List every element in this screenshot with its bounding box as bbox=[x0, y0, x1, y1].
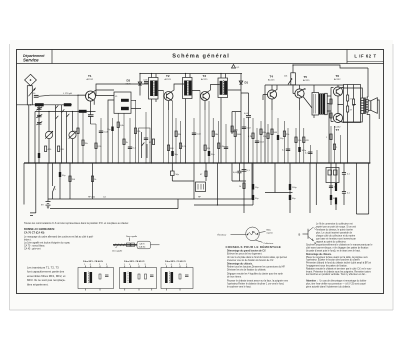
junction dots on ground bus bbox=[28, 162, 370, 163]
wire below-bus mid columns bbox=[244, 163, 331, 213]
IF transformer MF1 bbox=[149, 78, 159, 100]
resistor R8 bbox=[134, 128, 140, 134]
svg-text:Un cas de démontage et remonta: Un cas de démontage et remontage du boît… bbox=[320, 280, 367, 283]
svg-text:33k: 33k bbox=[178, 134, 181, 136]
svg-text:repère: repère bbox=[267, 231, 274, 234]
resistor R3 bbox=[73, 128, 79, 134]
note transistors in filters bbox=[27, 266, 66, 287]
svg-text:Filtre MF3 : FO 4D 21: Filtre MF3 : FO 4D 21 bbox=[165, 260, 187, 263]
svg-text:T3: T3 bbox=[203, 74, 207, 78]
capacitor C34 bbox=[171, 171, 179, 176]
svg-text:T6: T6 bbox=[336, 74, 340, 78]
svg-text:l'embase du dessus, le point s: l'embase du dessus, le point s'avère bbox=[316, 229, 354, 232]
resistor R1 bbox=[45, 146, 52, 152]
svg-text:8,2k: 8,2k bbox=[182, 146, 186, 148]
svg-text:1k: 1k bbox=[126, 142, 128, 144]
svg-text:Dévisser les vis de fixation d: Dévisser les vis de fixation du châssis. bbox=[227, 269, 267, 272]
svg-text:plus. Le circuit imprimé possè: plus. Le circuit imprimé possède de bbox=[316, 232, 353, 235]
wire T5 nets bbox=[293, 85, 305, 110]
capacitor C29 bbox=[329, 186, 338, 189]
svg-text:1ère agraffe: 1ère agraffe bbox=[112, 250, 122, 253]
antenna car-aerial diamond bbox=[25, 74, 37, 85]
wire bias nets bbox=[348, 85, 356, 164]
wire MF2 nets bbox=[186, 74, 201, 164]
trimmer CT2 bbox=[36, 114, 42, 117]
svg-text:CA 70: CA 70 bbox=[139, 243, 144, 246]
resistor R2 bbox=[58, 146, 65, 152]
svg-text:4: 4 bbox=[90, 264, 91, 266]
trimmer CT1 bbox=[36, 107, 42, 110]
svg-text:Retirer tous les boutons,Desse: Retirer tous les boutons,Desserrer les c… bbox=[227, 266, 286, 269]
paper edge shadow bbox=[10, 44, 394, 310]
IF transformer MF3 bbox=[218, 78, 228, 98]
oscillator coil block L5 bbox=[114, 92, 131, 113]
wire bias columns IF section bbox=[169, 101, 236, 163]
header box L IF 62 T bbox=[347, 50, 384, 64]
transistor symbol BCE legend bbox=[299, 226, 317, 245]
svg-text:1: 1 bbox=[84, 264, 85, 266]
svg-text:100μ: 100μ bbox=[292, 187, 297, 189]
wire T1 base net bbox=[78, 94, 86, 96]
conseils right column bbox=[306, 244, 373, 289]
svg-text:T2: T2 bbox=[166, 74, 170, 78]
svg-text:15k: 15k bbox=[85, 143, 88, 145]
capacitor C12 electrolytic bbox=[171, 151, 178, 156]
header box Departement Service bbox=[23, 50, 52, 64]
capacitor C21 electrolytic bbox=[298, 147, 306, 152]
wire antenna coupling bbox=[39, 95, 50, 96]
transformer TR2 secondary bbox=[366, 100, 368, 113]
resistor R9 bbox=[149, 139, 155, 145]
capacitor C20 bbox=[282, 149, 290, 152]
battery B1 9V bbox=[41, 199, 51, 209]
potentiometer P1 volume bbox=[284, 73, 295, 85]
svg-text:repéré par un point de rouge.: repéré par un point de rouge. Si on voit bbox=[316, 226, 356, 229]
svg-text:AC125: AC125 bbox=[165, 78, 172, 81]
resistor R33 bbox=[330, 99, 332, 104]
note collector lead paragraph bbox=[316, 223, 356, 244]
svg-text:1k: 1k bbox=[94, 179, 96, 181]
junction dots RF nets bbox=[30, 64, 339, 112]
diode D1 detector bbox=[239, 74, 248, 91]
wire C33 column bbox=[335, 163, 337, 210]
wire T3 collector to MF3 bbox=[208, 85, 220, 93]
svg-text:Démontage du châssis.: Démontage du châssis. bbox=[227, 263, 253, 266]
svg-text:(CA 45): (CA 45) bbox=[139, 246, 146, 249]
svg-text:D1: D1 bbox=[245, 81, 249, 85]
filter MF3 box bbox=[161, 264, 193, 291]
svg-text:3: 3 bbox=[145, 264, 146, 266]
note bobine body bbox=[24, 236, 93, 251]
resistor R19 bbox=[260, 129, 266, 135]
wire detector output net bbox=[241, 90, 249, 163]
coil L3 coupling winding bbox=[79, 110, 87, 113]
svg-text:4: 4 bbox=[171, 264, 172, 266]
svg-text:50μ: 50μ bbox=[62, 175, 65, 177]
svg-text:Bleu: Bleu bbox=[267, 229, 272, 231]
svg-text:Soulever proportionnellement l: Soulever proportionnellement le châssis … bbox=[306, 244, 373, 247]
filter MF1 box bbox=[78, 264, 114, 291]
resistor R7 bbox=[123, 139, 128, 145]
svg-text:d'exercer une vis de fixation: d'exercer une vis de fixation du bouton … bbox=[227, 259, 274, 262]
capacitor C18 bbox=[255, 141, 265, 144]
capacitor C28 electrolytic bbox=[289, 195, 296, 200]
resistor R27 bbox=[326, 134, 332, 140]
svg-text:10μ: 10μ bbox=[280, 138, 283, 140]
resistor R20 bbox=[263, 133, 269, 139]
transistor T6 bbox=[333, 74, 342, 96]
svg-text:Dégager ensuite les 4 éguilles: Dégager ensuite les 4 éguilles du clavie… bbox=[227, 273, 283, 276]
resistor R31 bbox=[239, 183, 245, 189]
resistor R4 bbox=[82, 140, 88, 146]
coil L2 ferrite LW winding bbox=[64, 103, 72, 106]
svg-text:4: 4 bbox=[129, 264, 130, 266]
transistor T7 bbox=[333, 113, 342, 132]
svg-text:Pousser le châssis tenant asse: Pousser le châssis tenant assez sur la f… bbox=[227, 280, 289, 283]
capacitor C31 bbox=[342, 173, 351, 176]
svg-text:L 170 μH: L 170 μH bbox=[63, 93, 72, 95]
transformer TR2 output primary bbox=[361, 98, 364, 114]
svg-text:AC125: AC125 bbox=[303, 79, 310, 82]
capacitor C13 bbox=[192, 133, 202, 136]
wire tone net bbox=[172, 163, 206, 199]
capacitor C27 electrolytic bbox=[289, 184, 297, 190]
svg-text:1k: 1k bbox=[239, 186, 241, 188]
resistor R14 bbox=[231, 126, 238, 132]
page border frame bbox=[17, 50, 384, 294]
svg-text:AC132: AC132 bbox=[87, 78, 94, 81]
svg-text:l'opérateur. Écarter le bouton: l'opérateur. Écarter le bouton des fourc… bbox=[306, 259, 361, 262]
svg-text:2: 2 bbox=[179, 264, 180, 266]
svg-text:Cd: Cd bbox=[103, 197, 106, 199]
capacitor C33 electrolytic bbox=[335, 183, 337, 205]
IF transformer MF2 bbox=[183, 78, 193, 99]
svg-text:4,7k: 4,7k bbox=[248, 136, 252, 138]
resistor R15 bbox=[212, 131, 218, 137]
wire secondary net bbox=[35, 112, 96, 164]
wire T3 base net bbox=[199, 91, 201, 164]
svg-text:Émetteur: Émetteur bbox=[218, 234, 227, 237]
svg-text:l'opérateur.Retirer le châssis: l'opérateur.Retirer le châssis s'incline… bbox=[227, 283, 285, 286]
conseils left column bbox=[227, 249, 289, 288]
resistor R23 bbox=[347, 106, 353, 112]
coil L1 ferrite MW winding bbox=[35, 103, 44, 106]
capacitor C23 electrolytic bbox=[59, 172, 66, 177]
svg-text:12k: 12k bbox=[263, 136, 266, 138]
svg-text:lettes t.: lettes t. bbox=[24, 239, 32, 242]
transistor T2 bbox=[164, 74, 173, 101]
svg-text:de leur étrens.: de leur étrens. bbox=[227, 276, 242, 279]
svg-text:gène autorité dans l'éclaireme: gène autorité dans l'éclairement du châs… bbox=[306, 285, 351, 288]
svg-text:50μ: 50μ bbox=[176, 174, 179, 176]
wire push-pull nets bbox=[338, 85, 344, 123]
capacitor C25 electrolytic bbox=[252, 184, 259, 190]
switch S2 on-off bbox=[53, 183, 57, 199]
loudspeaker HP bbox=[368, 98, 379, 119]
resistor R6 bbox=[117, 122, 123, 128]
svg-text:100k: 100k bbox=[237, 134, 241, 136]
capacitor C9 electrolytic bbox=[107, 127, 114, 132]
germanium coil drawing bbox=[112, 235, 160, 253]
svg-text:T1: T1 bbox=[88, 74, 92, 78]
svg-text:2: 2 bbox=[138, 264, 139, 266]
jack J2 speaker socket bbox=[196, 182, 206, 199]
transistor T5 bbox=[295, 75, 310, 98]
resistor R34 bbox=[330, 113, 332, 118]
wire top supply rail IF bbox=[140, 73, 242, 75]
resistor R17 bbox=[234, 131, 241, 137]
svg-text:Attention :: Attention : bbox=[306, 280, 318, 283]
svg-text:les fourches en position verti: les fourches en position verticale. Tout… bbox=[306, 273, 367, 276]
svg-text:Filtre MF2 : FB 4D 21: Filtre MF2 : FB 4D 21 bbox=[124, 260, 145, 263]
resistor R5 bbox=[95, 143, 101, 149]
resistor R22 bbox=[347, 95, 353, 101]
svg-text:Rabattre ensuite le châssis et: Rabattre ensuite le châssis et terminer … bbox=[306, 267, 372, 270]
resistor R16 bbox=[218, 143, 224, 149]
resistor R12 bbox=[179, 143, 185, 149]
connector tag lower left bbox=[30, 213, 36, 216]
svg-text:Toutes les commutations K-S on: Toutes les commutations K-S ont été repr… bbox=[24, 222, 129, 225]
capacitor C32 bbox=[342, 192, 351, 195]
wire T1 emitter net bbox=[90, 101, 92, 112]
svg-text:3: 3 bbox=[186, 264, 187, 266]
svg-text:Le marquage du cadre allemand: Le marquage du cadre allemand des couleu… bbox=[24, 236, 93, 239]
resistor R25 bbox=[295, 137, 301, 143]
svg-text:50μ: 50μ bbox=[292, 198, 295, 200]
capacitor C15 bbox=[244, 113, 251, 117]
wire AF supply rail bbox=[265, 85, 344, 163]
wire T4 nets bbox=[263, 85, 277, 110]
wire AVC net bbox=[232, 93, 249, 163]
wire C31 column bbox=[343, 163, 345, 205]
capacitor C35 bbox=[233, 171, 242, 174]
svg-text:le soulever vers le haut.: le soulever vers le haut. bbox=[227, 286, 252, 289]
svg-text:Filtre MF1 : FB 4H N: Filtre MF1 : FB 4H N bbox=[83, 260, 103, 263]
capacitor C4 electrolytic bbox=[38, 153, 40, 158]
header band bottom line bbox=[17, 63, 385, 65]
wire T1 collector to MF1 bbox=[93, 84, 149, 105]
transistor T3 bbox=[201, 74, 210, 101]
resistor R13 bbox=[204, 145, 211, 151]
svg-text:Enlever les yeux de leur logem: Enlever les yeux de leur logement. bbox=[227, 252, 263, 255]
transformer TR1 core and secondary winding bbox=[319, 94, 325, 115]
svg-text:(la patte d'avant puis le fond: (la patte d'avant puis le fond), en le t… bbox=[306, 249, 361, 252]
wire MF3 nets bbox=[221, 74, 241, 164]
transistor case pinout diagram bbox=[218, 227, 274, 245]
svg-text:2: 2 bbox=[99, 264, 100, 266]
svg-text:chaque côté du collecteur et d: chaque côté du collecteur et du repère bbox=[316, 235, 356, 238]
wire supply rail lower bbox=[48, 163, 252, 209]
wire C23 tail bbox=[59, 183, 61, 199]
variable capacitor CV2 oscillator gang bbox=[69, 131, 77, 138]
svg-text:Un tour à vis plate dans le fo: Un tour à vis plate dans le fond du bout… bbox=[227, 256, 287, 259]
svg-text:CA 45 : gris-vert: CA 45 : gris-vert bbox=[24, 248, 41, 251]
svg-text:Remontage du châssis.: Remontage du châssis. bbox=[306, 253, 332, 256]
switch block S3 bbox=[139, 128, 151, 163]
capacitor C8 bbox=[99, 131, 109, 134]
svg-text:que base et émetteur sont inve: que base et émetteur sont inversés par bbox=[316, 238, 356, 241]
wire left input net bbox=[17, 105, 73, 163]
wire bias columns AF section bbox=[244, 110, 341, 163]
capacitor C5 bbox=[88, 115, 94, 117]
resistor R35 bbox=[200, 171, 207, 177]
svg-text:Schéma général: Schéma général bbox=[172, 54, 230, 60]
capacitor C10 bbox=[128, 147, 137, 150]
junction dot rail bbox=[217, 204, 218, 205]
capacitor C24 bbox=[242, 170, 251, 173]
resistor R29 bbox=[69, 176, 76, 182]
svg-text:La 1ère agraffe est la plus él: La 1ère agraffe est la plus éloignée du … bbox=[24, 242, 71, 245]
svg-text:HP 25Ω: HP 25Ω bbox=[88, 197, 96, 199]
capacitor C14 electrolytic bbox=[208, 151, 215, 156]
wire T2 collector to MF2 bbox=[171, 84, 184, 92]
svg-text:1,5k: 1,5k bbox=[298, 140, 302, 142]
capacitor C19 electrolytic bbox=[277, 135, 284, 140]
svg-text:plus, tirer fera vérifier sa c: plus, tirer fera vérifier sa connexion —… bbox=[306, 283, 366, 286]
svg-text:22k: 22k bbox=[286, 134, 289, 136]
capacitor C7 bbox=[144, 79, 149, 83]
capacitor C11 bbox=[144, 138, 148, 140]
wire T2 emitter bbox=[169, 100, 173, 110]
svg-text:Placer le récepteur la face av: Placer le récepteur la face avant sur la… bbox=[306, 256, 369, 259]
resistor R21 bbox=[271, 129, 278, 135]
resistor R10 bbox=[167, 145, 174, 151]
svg-text:AC132: AC132 bbox=[334, 78, 341, 81]
svg-text:2ème agraffe: 2ème agraffe bbox=[126, 235, 137, 238]
antenna plug body bbox=[27, 86, 35, 105]
wire speaker return lines bbox=[356, 163, 368, 214]
svg-text:Présenter d'abord le fond du c: Présenter d'abord le fond du châssis inc… bbox=[306, 262, 371, 265]
resistor R28 bbox=[333, 144, 338, 150]
wire k-switch column S1 bbox=[56, 105, 67, 163]
thermistor marker bbox=[232, 65, 241, 70]
wire TR2 nets bbox=[343, 88, 370, 163]
svg-text:2,2k: 2,2k bbox=[98, 146, 102, 148]
svg-text:T7: T7 bbox=[336, 128, 340, 132]
svg-text:côté sans tourner-disque, et l: côté sans tourner-disque, et le dégager … bbox=[306, 247, 369, 250]
resistor R11 bbox=[175, 131, 181, 137]
svg-text:10k: 10k bbox=[284, 76, 287, 78]
wire C5 net bbox=[90, 112, 92, 125]
svg-text:CA 70 : noeud blanc: CA 70 : noeud blanc bbox=[24, 245, 46, 248]
transformer TR1 driver primary bbox=[312, 93, 319, 116]
svg-text:BOBINE AU GERMANIUM: BOBINE AU GERMANIUM bbox=[24, 228, 54, 231]
svg-text:D3: D3 bbox=[127, 79, 131, 83]
svg-text:B: B bbox=[299, 232, 301, 236]
svg-text:bles séparément.: bles séparément. bbox=[27, 282, 49, 286]
wire oscillator link to T1 bbox=[50, 94, 86, 96]
wire below-bus left columns bbox=[24, 163, 93, 213]
bias network box bbox=[344, 85, 361, 123]
svg-text:T5: T5 bbox=[304, 75, 308, 79]
transistor T4 bbox=[267, 75, 276, 100]
wire trimmer column bbox=[38, 105, 40, 163]
svg-text:10μ: 10μ bbox=[255, 187, 258, 189]
ground bus bbox=[24, 162, 370, 164]
svg-text:50μ: 50μ bbox=[175, 154, 178, 156]
svg-text:50μ: 50μ bbox=[211, 154, 214, 156]
wire CV1 net bbox=[48, 112, 50, 164]
svg-text:1: 1 bbox=[165, 264, 166, 266]
svg-text:AC125: AC125 bbox=[201, 78, 208, 81]
svg-text:1: 1 bbox=[124, 264, 125, 266]
svg-text:5,6k: 5,6k bbox=[120, 125, 124, 127]
capacitor C30 electrolytic bbox=[330, 195, 337, 200]
label speaker terminals bbox=[88, 197, 106, 199]
transformer TR2 core bbox=[364, 98, 367, 115]
wire bias columns RF section bbox=[78, 95, 146, 163]
svg-text:Démontage du grand bouton de C: Démontage du grand bouton de CV. bbox=[227, 249, 266, 252]
capacitor C16 bbox=[224, 147, 228, 149]
wire C35 net bbox=[232, 163, 246, 181]
svg-text:10μ: 10μ bbox=[107, 129, 110, 131]
svg-text:3: 3 bbox=[106, 264, 107, 266]
resistor R30 bbox=[91, 176, 96, 182]
transformer TR1 secondary frame bbox=[325, 93, 327, 114]
capacitor C17 bbox=[242, 127, 252, 130]
trimmer CT3 bbox=[36, 122, 42, 125]
svg-text:CONSEILS POUR LE DÉMONTAGE: CONSEILS POUR LE DÉMONTAGE bbox=[226, 244, 282, 249]
svg-text:Le fil de connexion du collect: Le fil de connexion du collecteur est bbox=[316, 223, 353, 226]
svg-text:L IF 62 T: L IF 62 T bbox=[354, 54, 376, 59]
svg-text:CA 70 CT (CA 45): CA 70 CT (CA 45) bbox=[24, 232, 45, 235]
filter MF2 box bbox=[120, 264, 157, 291]
variable capacitor CV1 tuning gang bbox=[45, 131, 53, 138]
svg-text:l'engagement sous les pattes d: l'engagement sous les pattes de fixation… bbox=[306, 265, 348, 268]
wire TR1 nets bbox=[303, 85, 334, 163]
wire MF1 nets bbox=[152, 74, 164, 164]
resistor R24 bbox=[283, 131, 289, 137]
svg-text:50μ: 50μ bbox=[255, 198, 258, 200]
switch contact K2 bbox=[62, 109, 70, 117]
capacitor C22 bbox=[305, 152, 313, 155]
svg-text:OA70: OA70 bbox=[126, 82, 132, 85]
svg-text:AC125: AC125 bbox=[268, 79, 275, 82]
transistor T1 bbox=[86, 74, 96, 101]
wire T3 emitter bbox=[204, 101, 206, 110]
svg-text:3,3k: 3,3k bbox=[220, 146, 224, 148]
wire osc block nets bbox=[96, 90, 141, 163]
svg-text:T4: T4 bbox=[270, 75, 274, 79]
wire T2 base net bbox=[163, 91, 165, 164]
jack J3 earphone bbox=[326, 168, 339, 183]
svg-text:levant. Présenter le châssis s: levant. Présenter le châssis sous les po… bbox=[306, 270, 372, 273]
svg-text:39k: 39k bbox=[73, 131, 76, 133]
wire lower rail right bbox=[194, 163, 253, 205]
svg-text:18k: 18k bbox=[215, 134, 218, 136]
diode D3 bbox=[126, 74, 142, 96]
svg-text:4,7k: 4,7k bbox=[48, 149, 52, 151]
switch contact K1 bbox=[56, 105, 59, 119]
svg-text:68k: 68k bbox=[263, 132, 266, 134]
svg-text:Service: Service bbox=[23, 58, 39, 63]
capacitor C1 antenna coupling bbox=[33, 93, 39, 97]
resistor R18 bbox=[248, 133, 254, 139]
wire P1 feedback net bbox=[293, 65, 368, 97]
resistor R26 bbox=[303, 137, 310, 143]
wire CV2 net bbox=[72, 112, 74, 164]
capacitor C26 electrolytic bbox=[252, 195, 259, 200]
svg-text:rapport au point du collecteur: rapport au point du collecteur. bbox=[316, 241, 347, 244]
